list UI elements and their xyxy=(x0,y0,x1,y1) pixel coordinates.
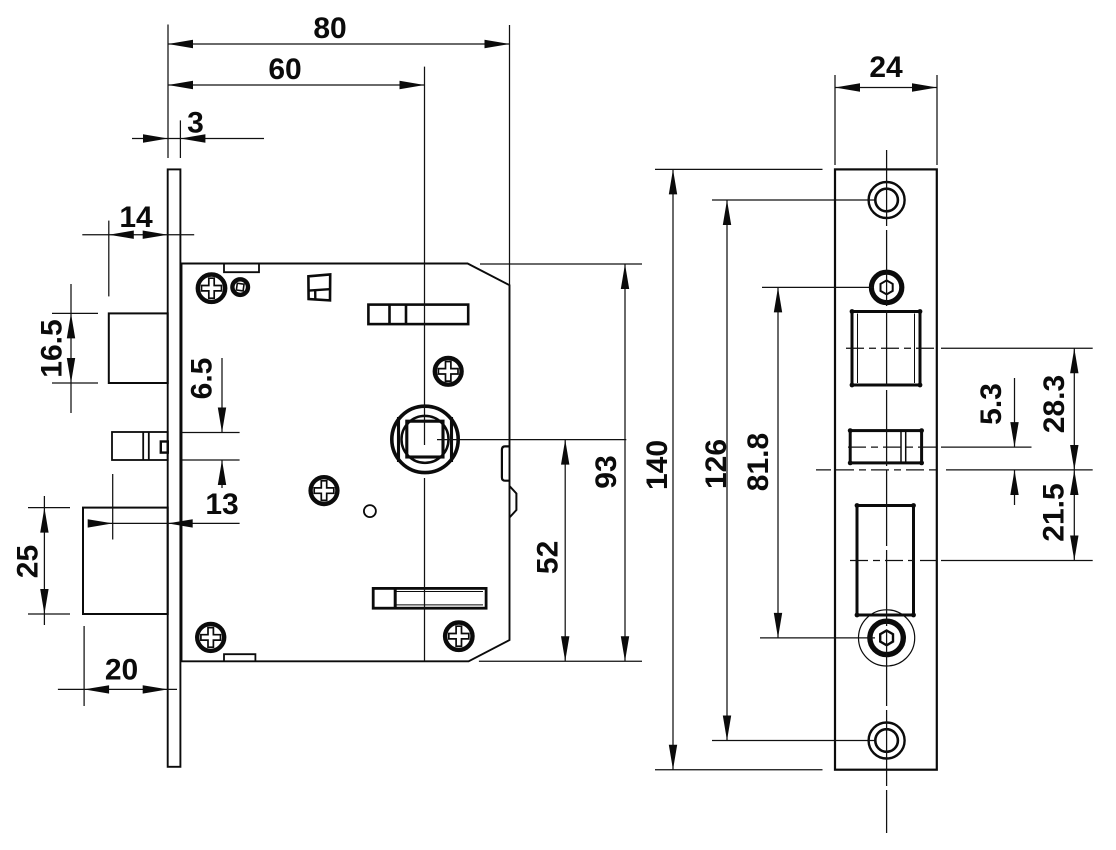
svg-text:140: 140 xyxy=(641,440,674,490)
lock case body xyxy=(182,264,510,662)
dim line 5.3 xyxy=(1014,378,1016,505)
screw S3 xyxy=(311,477,338,504)
auxiliary latch xyxy=(112,432,168,460)
ext line x168 xyxy=(167,25,169,159)
arrows 13 xyxy=(88,519,113,527)
dim line 126 xyxy=(726,200,728,741)
svg-text:126: 126 xyxy=(700,439,733,489)
right edge trigger xyxy=(510,486,517,518)
svg-text:80: 80 xyxy=(313,12,346,45)
refs 81.8 xyxy=(760,287,875,638)
arrows 5.3 xyxy=(1010,422,1018,447)
screw S2 xyxy=(435,358,462,385)
square cutout xyxy=(852,312,920,386)
small cutout xyxy=(850,431,921,463)
arrows 52 xyxy=(561,440,569,465)
arrows 80 xyxy=(168,40,193,48)
dim line 60 xyxy=(168,84,425,86)
svg-text:13: 13 xyxy=(205,488,238,521)
svg-text:24: 24 xyxy=(869,51,903,84)
svg-text:3: 3 xyxy=(187,107,204,140)
center line x424.5 xyxy=(424,67,426,662)
ext line x112.7 xyxy=(112,474,114,540)
ref case top xyxy=(480,263,642,265)
arrows 16.5 xyxy=(67,313,75,338)
arrows 24 xyxy=(835,83,860,91)
arrows 25 xyxy=(40,508,48,533)
center line plate middle xyxy=(836,469,937,471)
dim line 140 xyxy=(672,169,674,769)
small pin circle xyxy=(364,505,376,517)
svg-text:21.5: 21.5 xyxy=(1038,483,1071,541)
arrows 81.8 xyxy=(774,287,782,312)
arrows 3 xyxy=(143,134,168,142)
screw S1 xyxy=(198,275,225,302)
dim line 81.8 xyxy=(777,287,779,638)
svg-text:16.5: 16.5 xyxy=(36,319,69,377)
refs 25 xyxy=(28,508,70,614)
svg-text:28.3: 28.3 xyxy=(1038,375,1071,433)
ring square part xyxy=(232,279,248,295)
arrows 93 xyxy=(621,264,629,289)
dim line 28.3 xyxy=(1073,348,1075,470)
arrows 20 xyxy=(84,685,109,693)
center line plate vertical xyxy=(886,150,888,833)
arrows 140 xyxy=(669,169,677,194)
lower hex bolt xyxy=(859,610,915,666)
arrows 14 xyxy=(109,231,134,239)
lower slot box xyxy=(373,588,486,608)
dim line 3 xyxy=(132,138,264,140)
upper slot box xyxy=(368,305,468,325)
dim line 24 xyxy=(835,87,937,89)
refs 126 xyxy=(712,200,876,741)
arrows 126 xyxy=(723,200,731,225)
bottom screw hole xyxy=(869,723,905,759)
svg-text:60: 60 xyxy=(268,53,301,86)
arrows 6.5 xyxy=(218,408,226,433)
ref 5.3 xyxy=(941,446,1032,448)
dim line 93 xyxy=(624,264,626,661)
screw S4 xyxy=(197,624,224,651)
refs 140 xyxy=(655,169,823,769)
svg-text:81.8: 81.8 xyxy=(742,433,775,491)
arrows 28.3 xyxy=(1070,348,1078,373)
right edge tab slot xyxy=(502,446,510,480)
case bottom tab xyxy=(224,654,255,661)
dim line 16.5 xyxy=(70,284,72,413)
center line small cutout xyxy=(848,446,941,448)
ref 28.3 xyxy=(941,347,1093,349)
dim line 13 xyxy=(92,522,240,524)
svg-text:5.3: 5.3 xyxy=(975,383,1008,425)
dim line 25 xyxy=(43,496,45,625)
svg-text:93: 93 xyxy=(590,455,623,488)
front plate xyxy=(835,169,937,769)
top screw hole xyxy=(869,182,905,218)
center line square cutout xyxy=(846,347,937,349)
upper hex bolt xyxy=(871,272,901,302)
ext line x84.1 xyxy=(83,626,85,706)
latch bolt xyxy=(109,313,168,383)
svg-text:14: 14 xyxy=(119,201,153,234)
deadbolt xyxy=(83,508,168,614)
svg-text:25: 25 xyxy=(12,545,45,578)
ext line x509.5 xyxy=(509,25,511,285)
screw S5 xyxy=(445,623,472,650)
dim line 52 xyxy=(564,440,566,662)
exts 24 xyxy=(835,75,937,165)
ref case bottom xyxy=(479,660,642,662)
cam part xyxy=(308,274,330,300)
faceplate side view xyxy=(168,169,181,766)
ref plate center right xyxy=(816,469,1093,471)
lower cutout xyxy=(857,506,914,616)
refs 16.5 xyxy=(52,313,98,383)
center line lower cutout xyxy=(850,560,937,562)
dim line 6.5 xyxy=(221,358,223,488)
spindle hub xyxy=(392,406,458,472)
refs 6.5 xyxy=(182,433,240,461)
ref 21.5 xyxy=(941,560,1093,562)
arrows 60 xyxy=(168,81,193,89)
dim line 21.5 xyxy=(1073,470,1075,561)
arrows 21.5 xyxy=(1070,470,1078,495)
ext line x108.8 xyxy=(108,221,110,297)
ext line x180.4 xyxy=(179,120,181,158)
case top notch xyxy=(224,264,259,273)
svg-text:52: 52 xyxy=(531,541,564,574)
svg-text:6.5: 6.5 xyxy=(186,358,219,400)
svg-text:20: 20 xyxy=(105,654,138,687)
ref 52 xyxy=(437,439,626,441)
dim line 80 xyxy=(168,43,510,45)
dim line 20 xyxy=(58,688,177,690)
dim line 14 xyxy=(82,234,194,236)
